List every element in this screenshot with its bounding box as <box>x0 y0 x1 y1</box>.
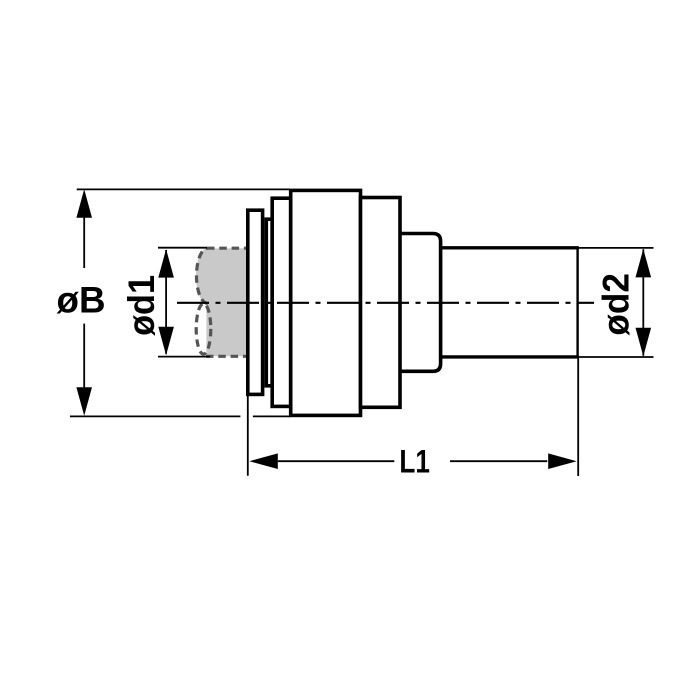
tube fill <box>441 248 578 357</box>
dim od2 arrow down <box>636 328 652 357</box>
dim L1 extension right <box>577 358 579 476</box>
dim oB arrow down <box>76 387 92 416</box>
dim od2 extension top <box>579 247 654 249</box>
dim od1 arrow down <box>158 327 174 356</box>
dim od1 extension bottom <box>158 356 210 358</box>
centerline <box>177 302 594 304</box>
flange plate <box>248 210 263 394</box>
main body <box>291 190 361 415</box>
tube bottom edge <box>441 355 579 358</box>
svg-text:øB: øB <box>57 279 106 320</box>
dim L1 arrow left <box>249 453 277 469</box>
tube top edge <box>441 246 579 249</box>
svg-text:L1: L1 <box>399 444 430 480</box>
dim oB extension top <box>77 188 290 190</box>
shoulder with rounded corners <box>398 234 440 372</box>
dim oB line <box>83 218 85 269</box>
pipe end arc dashed <box>196 248 207 303</box>
collar section <box>272 198 291 406</box>
tube end edge <box>576 247 578 358</box>
dim L1 arrow right <box>548 453 577 469</box>
pipe bottom edge dashed <box>206 355 248 358</box>
dim od2 extension bottom <box>579 356 654 358</box>
dim oB arrow up <box>76 189 92 218</box>
pipe top edge dashed <box>207 247 248 250</box>
pipe bore ellipse dashed <box>196 304 211 354</box>
dim od1 extension top <box>158 247 207 249</box>
svg-text:ød1: ød1 <box>121 275 162 336</box>
pipe end (gray) fill <box>196 248 248 356</box>
dim od2 line <box>642 249 644 355</box>
dim od1 arrow up <box>158 249 174 278</box>
dim od1 line <box>165 250 167 354</box>
dim od2 arrow up <box>636 249 652 278</box>
dim L1 extension left <box>247 396 249 476</box>
svg-text:ød2: ød2 <box>596 273 637 336</box>
medium section <box>361 198 401 408</box>
step ring <box>266 219 272 386</box>
dim oB extension bottom <box>70 415 240 417</box>
dim L1 line <box>278 460 395 462</box>
